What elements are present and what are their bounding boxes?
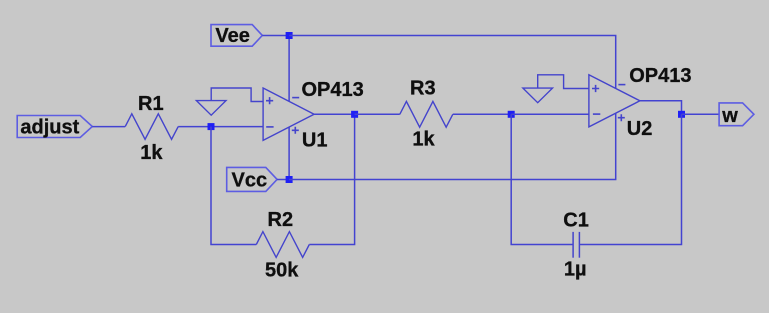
svg-text:R1: R1	[138, 93, 164, 115]
svg-text:OP413: OP413	[629, 65, 691, 87]
wire U1 output	[314, 113, 355, 115]
junction Vee	[286, 32, 293, 39]
wire U1 V+ pin to Vcc rail	[288, 127, 290, 180]
svg-text:50k: 50k	[265, 260, 299, 282]
wire R2 up to U1 output node	[309, 114, 354, 244]
svg-text:Vcc: Vcc	[232, 170, 268, 192]
wire junction to port w	[682, 113, 720, 115]
svg-text:Vee: Vee	[215, 25, 249, 47]
wire Vee rail to U2 V- pin	[289, 36, 616, 89]
port Vcc	[227, 167, 277, 191]
wire Vee flag to junction	[262, 35, 289, 37]
wire node A down to R2	[211, 127, 256, 245]
wire adjust to R1	[92, 126, 125, 128]
svg-text:C1: C1	[563, 209, 589, 231]
wire ground G1 to U1 noninverting input	[211, 88, 263, 102]
port w	[719, 103, 754, 127]
wire R3 to node B	[453, 113, 511, 115]
junction node A	[208, 123, 215, 130]
wire node B down to C1	[511, 114, 573, 244]
port Vee	[211, 25, 262, 47]
op-amp U2	[589, 75, 640, 127]
svg-text:1µ: 1µ	[564, 259, 587, 281]
junction U1 output	[351, 111, 358, 118]
capacitor C1	[573, 232, 579, 258]
wire junction to R3	[355, 113, 400, 115]
svg-text:U1: U1	[302, 129, 328, 151]
svg-text:R2: R2	[268, 209, 294, 231]
wire U2 output	[640, 101, 682, 115]
svg-text:OP413: OP413	[302, 79, 364, 101]
svg-text:1k: 1k	[140, 142, 163, 164]
wire node B to U2 inverting input	[511, 113, 589, 115]
wire R1 to node A	[178, 126, 211, 128]
wire U1 V- pin to Vee rail	[288, 36, 290, 102]
svg-text:1k: 1k	[412, 128, 435, 150]
resistor R2	[256, 232, 309, 258]
wire Vcc rail to U2 V+ pin	[289, 113, 616, 179]
ground G2	[523, 88, 553, 103]
resistor R1	[125, 114, 178, 140]
ground G1	[196, 101, 226, 116]
junction output node	[678, 111, 685, 118]
svg-text:adjust: adjust	[20, 116, 79, 138]
svg-text:R3: R3	[410, 78, 436, 100]
wire ground G2 to U2 noninverting input	[538, 75, 589, 89]
wire C1 to output node	[579, 114, 681, 244]
svg-text:w: w	[721, 105, 738, 127]
junction node B	[508, 111, 515, 118]
wire Vcc flag to junction	[277, 179, 289, 181]
junction Vcc	[286, 176, 293, 183]
wire node A to U1 inverting input	[211, 126, 263, 128]
port adjust	[17, 116, 92, 139]
op-amp U1	[263, 88, 314, 140]
svg-text:U2: U2	[627, 118, 653, 140]
resistor R3	[400, 101, 453, 127]
